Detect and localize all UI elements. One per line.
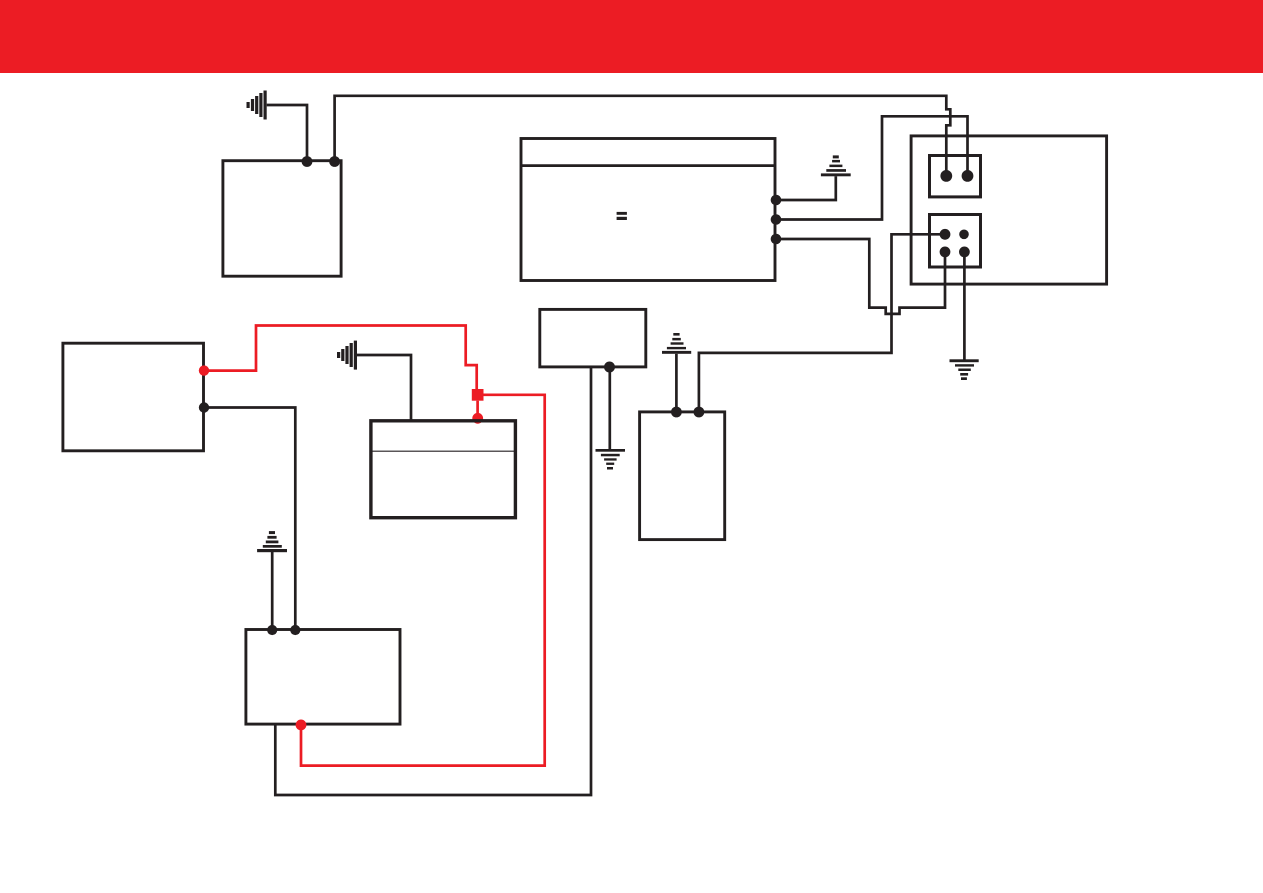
module M3 (connector housing, right) (911, 136, 1107, 284)
pin dot P2-4 (959, 247, 970, 258)
module M1 (top-left box) (223, 161, 341, 277)
ground G7 (earth ground above M7) (257, 531, 287, 552)
junction dot M7 pin 1 (267, 625, 277, 635)
terminal T1 (red square node) (472, 389, 484, 401)
junction dot M2 pin 1 (771, 195, 782, 206)
wire M1 top pin 2 to connector P1 pin 1 (long top bus with crossover jog) (335, 96, 951, 176)
wire G1 to M1 top pin (267, 105, 307, 162)
red wire T1 to battery B1 positive (476, 401, 479, 419)
junction dot M2 pin 3 (771, 234, 782, 245)
battery B1 (371, 421, 516, 518)
header banner (0, 0, 1263, 73)
ground G3 (earth ground, bars above stem) (662, 333, 691, 354)
junction dot M1 pin 1 (302, 156, 313, 167)
ground G4 (rotated earth ground) (337, 341, 357, 370)
module M7 (bottom box) (246, 630, 400, 725)
pin dot P1-1 (940, 170, 952, 182)
ground G1 (rotated earth ground) (247, 91, 267, 120)
pin dot M6-2 (694, 407, 705, 418)
wire P2 pin 4 to ground G6 (963, 252, 966, 360)
wire P2 pin 1 to module M6 pin 2 (699, 234, 945, 412)
junction dot M5 negative (199, 402, 209, 412)
red node dot M7 bottom (296, 720, 307, 731)
ground G2 (earth ground, bars above stem) (821, 155, 851, 176)
wire M4 bottom to module M7 (long left loop) (275, 366, 591, 795)
red node dot battery B1 positive (472, 413, 483, 424)
wire M2 pin 2 to connector P1 pin 2 (776, 116, 968, 219)
connector P2 (4-pin plug) (930, 215, 981, 268)
wire G4 to battery B1 top (357, 355, 411, 421)
junction dot M4 bottom (604, 362, 615, 373)
wire M5 negative to module M7 pin 2 (204, 408, 295, 631)
junction dot M1 pin 2 (329, 156, 340, 167)
junction dot M7 pin 2 (290, 625, 300, 635)
ground G6 (earth ground below P2) (950, 359, 979, 380)
wire M2 pin 1 to ground G2 (776, 176, 836, 200)
wire M4 bottom dot to ground G5 (608, 367, 611, 450)
wire G7 to module M7 pin 1 (271, 552, 274, 630)
ground G5 (earth ground) (596, 449, 626, 470)
pin dot M6-1 (671, 407, 682, 418)
module M5 (left box) (63, 343, 204, 451)
module M6 (right lower box) (640, 412, 725, 540)
pin dot P1-2 (962, 170, 974, 182)
wire M2 pin 3 to connector P2 pin 3 (with hop jog) (776, 239, 945, 314)
pin dot P2-3 (940, 247, 951, 258)
label "=" inside M2 (617, 212, 627, 220)
wire G3 stem to module M6 pin 1 (675, 354, 678, 412)
pin dot P2-2 (959, 230, 969, 240)
red node dot M5 positive (199, 365, 209, 375)
module M4 (mid relay box) (540, 309, 646, 367)
red wire M5 positive to terminal T1 (204, 326, 477, 391)
red wire T1 to module M7 bottom (long loop) (301, 395, 545, 766)
module M2 (center control unit) (521, 139, 775, 281)
junction dot M2 pin 2 (771, 214, 782, 225)
connector P1 (2-pin plug) (930, 156, 981, 197)
pin dot P2-1 (940, 229, 951, 240)
